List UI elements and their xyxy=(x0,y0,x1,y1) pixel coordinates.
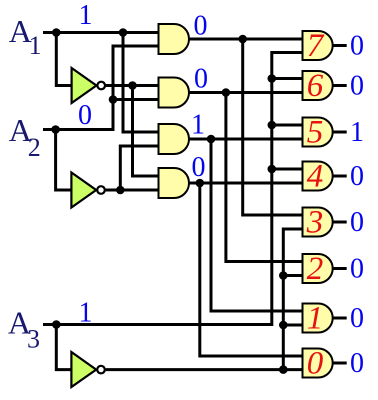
svg-text:0: 0 xyxy=(192,152,206,183)
svg-text:0: 0 xyxy=(350,348,364,379)
wire A1' down branch to M4 top xyxy=(133,86,159,177)
svg-text:0: 0 xyxy=(194,64,208,95)
wire U1 output to M2 top xyxy=(106,84,159,87)
node A3 junction to G6 top xyxy=(268,74,277,83)
wire G2 output xyxy=(333,267,347,270)
node A3' junction to G1 bottom xyxy=(279,321,288,330)
node A2 junction to M2 bottom xyxy=(109,95,118,104)
wire A2' up branch to M3 bottom xyxy=(120,146,158,190)
and-gate G6 xyxy=(303,71,333,100)
and-gate G4 xyxy=(303,162,333,191)
svg-text:1: 1 xyxy=(29,31,42,60)
and-gate G7 xyxy=(303,31,333,60)
svg-text:1: 1 xyxy=(79,0,93,31)
label input A2 xyxy=(9,112,41,162)
svg-text:0: 0 xyxy=(350,254,364,285)
wire M1 branch down to G3 top xyxy=(243,39,303,215)
svg-text:2: 2 xyxy=(307,251,324,287)
inverter U2 (A2) xyxy=(71,173,104,208)
wire A1 branch down to inverter U1 xyxy=(56,33,71,86)
wire G1 output xyxy=(333,317,347,320)
wire G5 output xyxy=(333,131,347,134)
wire A3' to G1 bottom xyxy=(283,324,302,327)
wire U3 output A3' to G0 bottom xyxy=(106,368,303,371)
label input A3 xyxy=(8,305,40,354)
wire M3 branch down to G1 top xyxy=(211,139,303,311)
wire A3 to G4 top xyxy=(272,168,303,171)
wire A3 to G6 top xyxy=(272,77,303,80)
wire A2 to M2 bottom xyxy=(113,98,159,101)
svg-text:7: 7 xyxy=(307,28,325,64)
node A1' junction at down branch xyxy=(128,81,137,90)
inverter U3 (A3) xyxy=(71,352,104,387)
node M2 output junction xyxy=(222,88,231,97)
and-gate G1 xyxy=(303,304,333,333)
wire G7 output xyxy=(333,44,347,47)
wire U2 output to M4 bottom xyxy=(106,189,159,192)
svg-text:0: 0 xyxy=(350,303,364,334)
svg-text:0: 0 xyxy=(307,346,324,382)
wire G3 output xyxy=(333,221,347,224)
wire A1 down branch to M3 top xyxy=(123,33,159,133)
svg-text:6: 6 xyxy=(307,68,324,104)
and-gate M3 (A1·A2') xyxy=(159,124,190,154)
wire A3' to G2 bottom xyxy=(283,274,302,277)
node A3 junction to G4 top xyxy=(268,165,277,174)
svg-text:3: 3 xyxy=(306,205,324,241)
wire G4 output xyxy=(333,175,347,178)
wire A3' up branch to G3 bottom xyxy=(283,229,302,370)
wire A2 horizontal, up to M1 bottom xyxy=(43,46,159,130)
svg-text:0: 0 xyxy=(350,207,364,238)
node A1 junction at inverter branch xyxy=(52,28,61,37)
node A2 junction at inverter branch xyxy=(51,125,60,134)
node A3' junction to G2 bottom xyxy=(279,271,288,280)
node A3' junction at up branch xyxy=(279,365,288,374)
wire M2 output to G6 bottom xyxy=(189,91,303,94)
svg-text:0: 0 xyxy=(78,100,92,131)
wire G0 output xyxy=(333,362,347,365)
svg-text:2: 2 xyxy=(28,133,41,162)
svg-text:5: 5 xyxy=(307,115,324,151)
wire G6 output xyxy=(333,84,347,87)
svg-text:0: 0 xyxy=(350,31,364,62)
and-gate M2 (A1'·A2) xyxy=(159,78,190,108)
node A3 junction at inverter branch xyxy=(52,320,61,329)
node M3 output junction xyxy=(207,135,216,144)
inverter U1 (A1) xyxy=(72,68,105,103)
wire M4 branch down to G0 top xyxy=(200,183,303,356)
node M1 output junction xyxy=(238,35,247,44)
and-gate M1 (A1·A2) xyxy=(159,24,190,54)
and-gate G0 xyxy=(303,349,333,378)
wire M3 output to G5 bottom xyxy=(189,138,303,141)
svg-text:3: 3 xyxy=(27,325,40,354)
wire A1 horizontal xyxy=(43,31,159,34)
node A1 junction at down branch xyxy=(119,28,128,37)
svg-text:1: 1 xyxy=(350,117,364,148)
wire M4 output to G4 bottom xyxy=(189,182,303,185)
and-gate G3 xyxy=(303,208,333,237)
node A3 junction to G5 top xyxy=(268,121,277,130)
wire A3 horizontal, up to G7 bottom xyxy=(43,53,303,325)
label input A1 xyxy=(9,13,42,60)
and-gate M4 (A1'·A2') xyxy=(159,168,190,198)
svg-text:1: 1 xyxy=(191,110,205,141)
node A2' junction at up branch xyxy=(116,186,125,195)
svg-text:4: 4 xyxy=(307,159,324,195)
and-gate G2 xyxy=(303,254,333,283)
wire A2 branch down to inverter U2 xyxy=(56,130,72,191)
node M4 output junction xyxy=(196,179,205,188)
wire A3 to G5 top xyxy=(272,124,303,127)
wire A3 branch down to inverter U3 xyxy=(56,325,71,370)
svg-text:0: 0 xyxy=(350,71,364,102)
svg-text:1: 1 xyxy=(79,298,93,329)
and-gate G5 xyxy=(303,118,333,147)
svg-text:0: 0 xyxy=(350,161,364,192)
wire M1 output to G7 top xyxy=(189,38,303,41)
svg-text:1: 1 xyxy=(307,301,324,337)
svg-text:0: 0 xyxy=(194,11,208,42)
wire M2 branch down to G2 top xyxy=(226,93,303,262)
